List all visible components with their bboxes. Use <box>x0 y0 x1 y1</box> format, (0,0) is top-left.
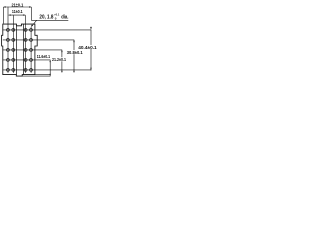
column centerline D <box>30 27 32 73</box>
row centerline 4 <box>3 59 51 61</box>
column centerline C <box>25 15 27 73</box>
inner band line left <box>16 26 18 75</box>
inner band line right <box>22 24 24 75</box>
dim line 21 <box>4 6 32 8</box>
bottom edge extension <box>35 74 51 76</box>
dim 21 extension right <box>30 7 32 20</box>
arrow 21.2 bottom <box>61 70 62 72</box>
svg-text:dia.: dia. <box>61 15 69 21</box>
arrow 30.8 top <box>73 40 74 42</box>
leader diagonal to hole <box>32 20 37 26</box>
dim line 11 <box>9 14 26 16</box>
svg-text:20, 1.8: 20, 1.8 <box>39 15 53 21</box>
row centerline 1 <box>3 29 91 31</box>
leader underline for hole note <box>31 19 68 21</box>
dim 21 extension left <box>3 7 5 24</box>
arrow 21 right <box>29 6 31 7</box>
dim line 11.6 vertical <box>49 60 51 76</box>
svg-text:11±0.1: 11±0.1 <box>12 9 23 15</box>
dim line 40.4 vertical <box>90 30 92 71</box>
arrow 40.4 bottom <box>90 68 91 70</box>
arrowheads <box>4 6 92 76</box>
svg-text:21±0.1: 21±0.1 <box>11 2 23 8</box>
svg-text:21.2±0.1: 21.2±0.1 <box>52 57 66 62</box>
holes 20x 1.8 dia <box>6 28 32 71</box>
arrow leader tip <box>31 25 33 27</box>
row centerline 5 <box>3 69 91 71</box>
tab bottom extension <box>22 75 50 77</box>
arrow 21 left <box>4 6 6 7</box>
row centerline 2 <box>3 39 74 41</box>
arrow 11.6 bottom <box>50 74 51 76</box>
arrow 21.2 top <box>61 50 62 52</box>
svg-text:11.6±0.1: 11.6±0.1 <box>37 54 51 59</box>
column centerline A <box>7 7 9 73</box>
arrow 30.8 bottom <box>73 70 74 72</box>
white label backgrounds <box>37 45 97 61</box>
arrow 11 right <box>23 14 25 15</box>
arrow 40.4 top <box>90 27 92 30</box>
arrow 11 left <box>9 14 11 15</box>
dim line 21.2 vertical <box>61 50 63 73</box>
svg-text:30.8±0.1: 30.8±0.1 <box>67 50 83 55</box>
column centerline B <box>12 15 14 73</box>
svg-text:40.4±0.1: 40.4±0.1 <box>78 45 97 50</box>
body outline <box>2 24 38 76</box>
row centerline 3 <box>3 49 62 51</box>
dim line 30.8 vertical <box>73 40 75 73</box>
arrow 11.6 top <box>50 60 51 62</box>
